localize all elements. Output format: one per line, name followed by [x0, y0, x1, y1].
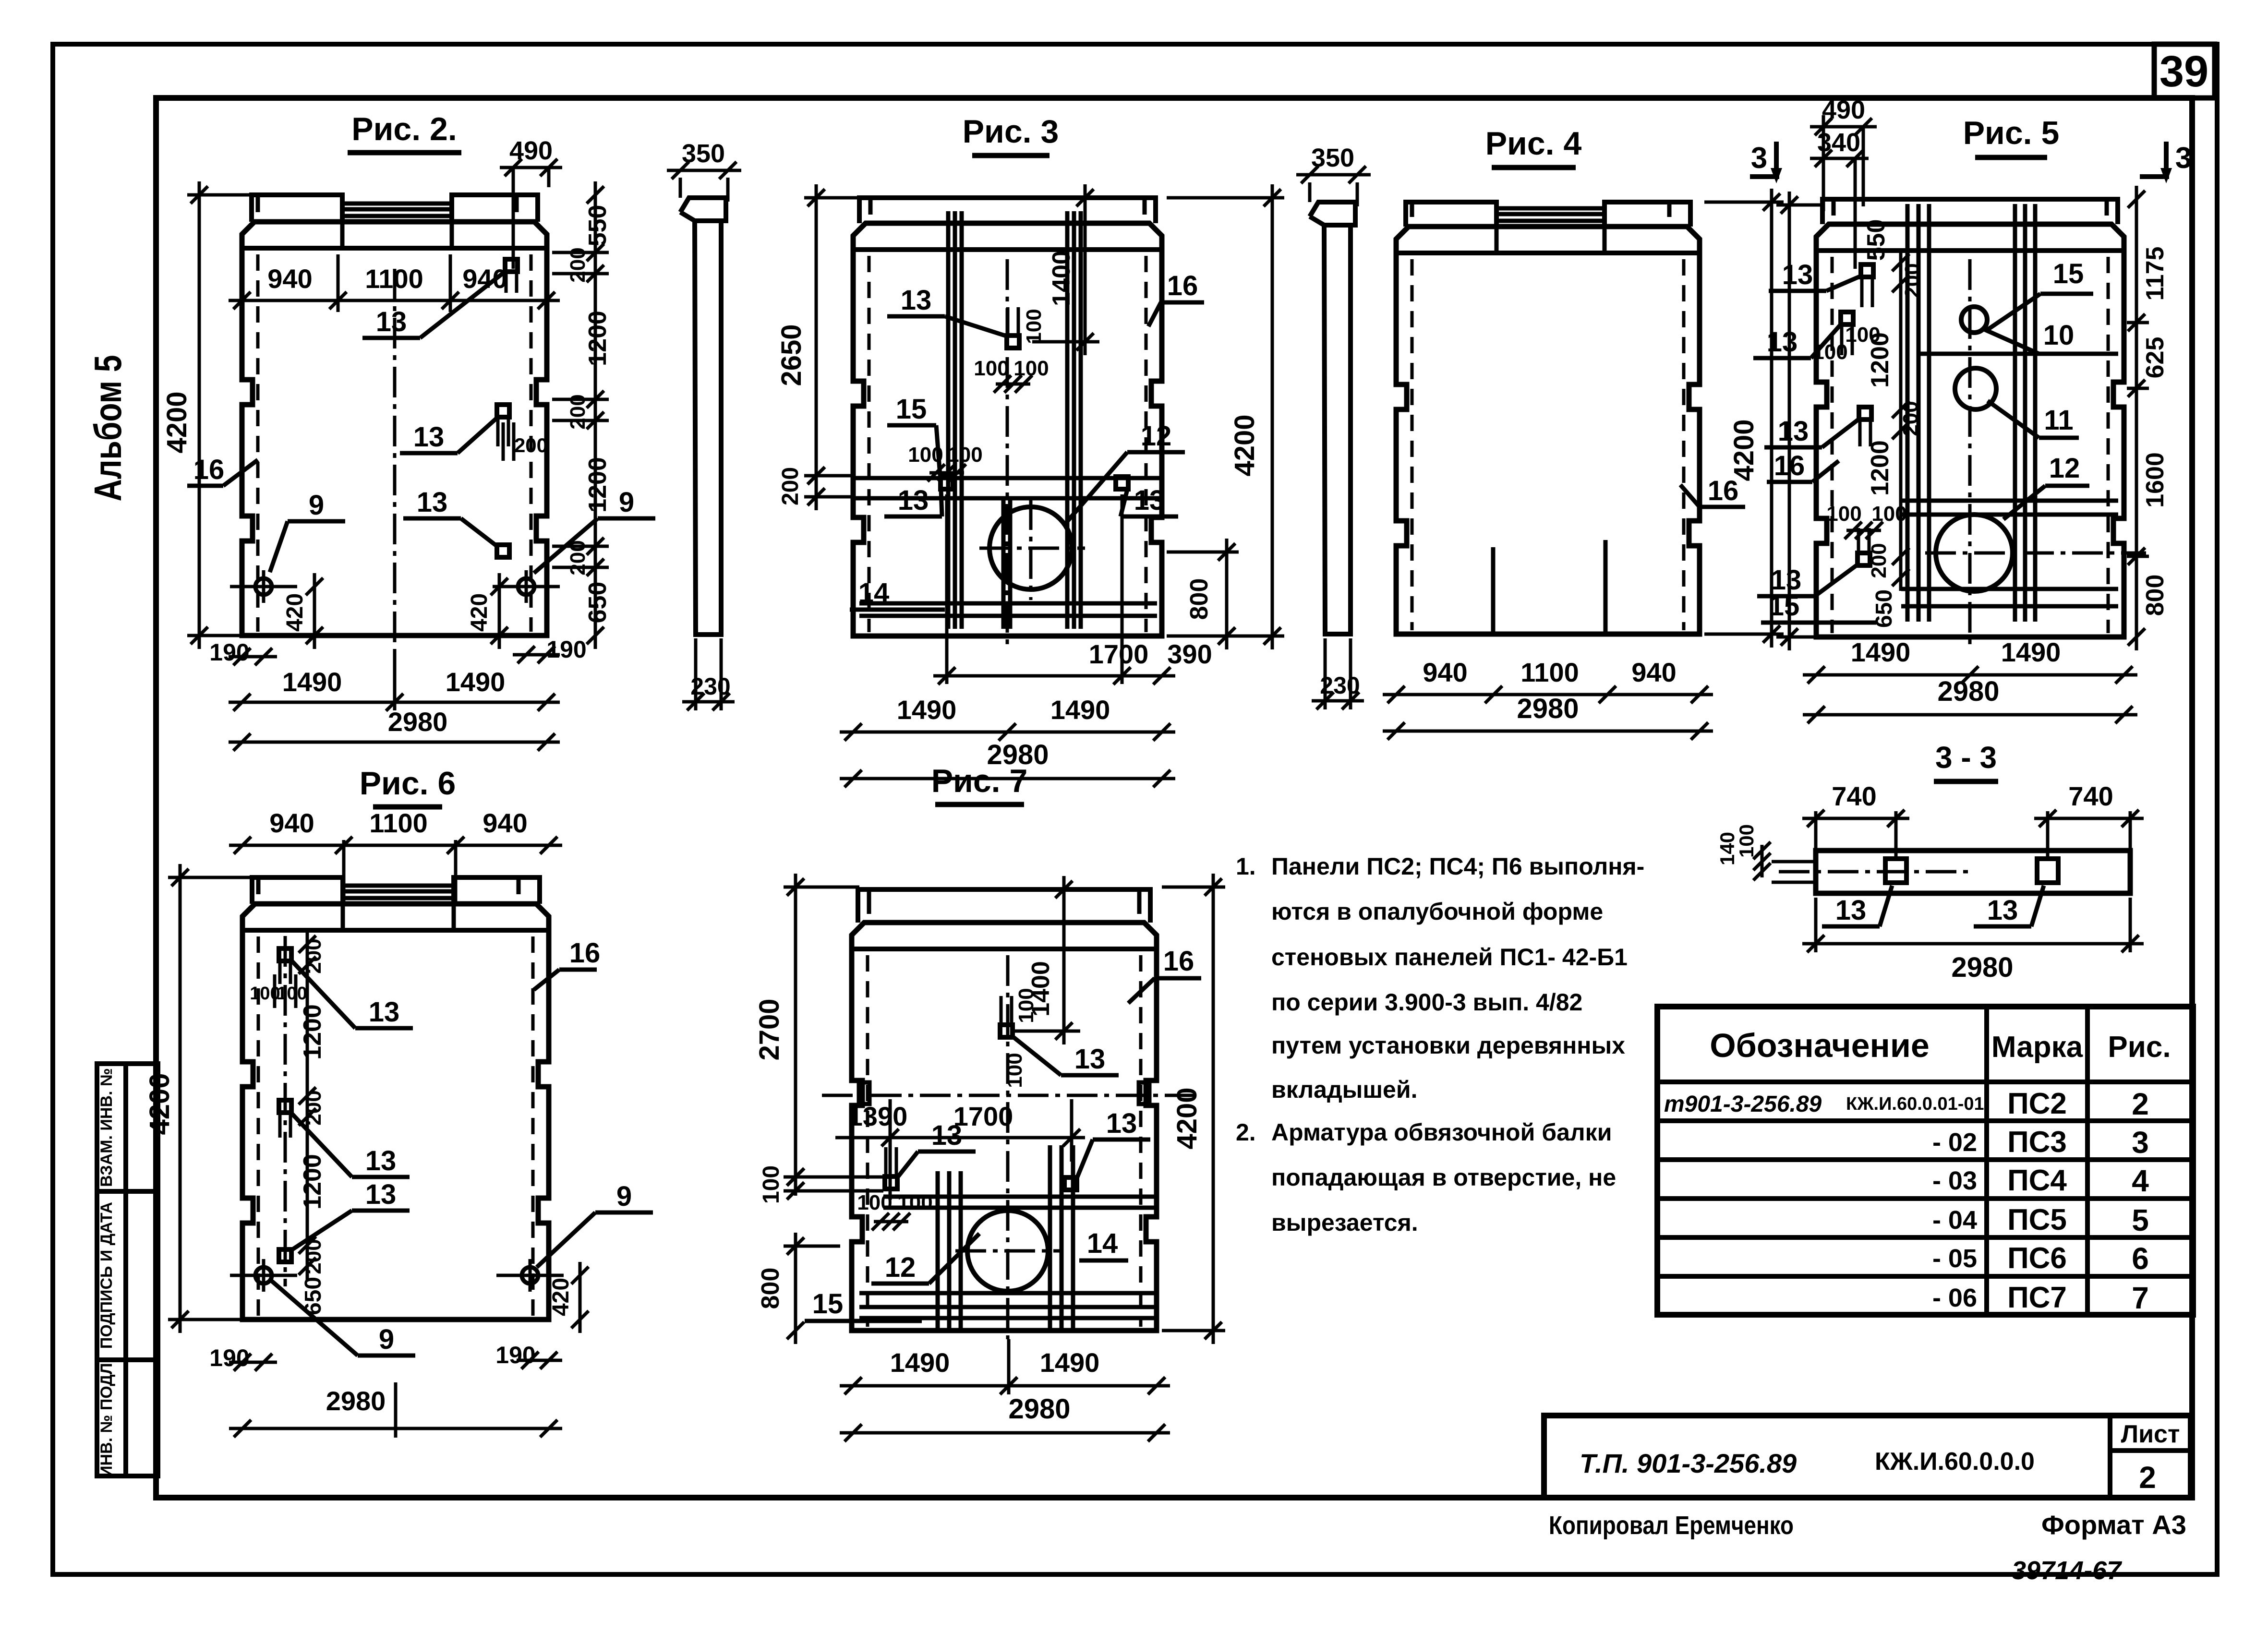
section 3-3 dim 140 100 left	[1716, 824, 1771, 880]
fig4 top band line	[1396, 251, 1700, 255]
svg-text:100: 100	[1022, 309, 1046, 344]
fig7 label 12 leader	[871, 1234, 979, 1284]
fig2 dim 1490 1490	[229, 653, 560, 711]
fig5 anchor 13 a4	[1858, 528, 1870, 565]
svg-text:13: 13	[1106, 1108, 1137, 1139]
fig7 dim 100 100 top	[1003, 988, 1038, 1088]
notes paragraph 1	[1236, 853, 1644, 1103]
svg-text:2980: 2980	[1937, 676, 1999, 707]
fig2 dim 940 1100 940	[229, 254, 560, 312]
fig5 dim 1490 1490	[1803, 637, 2137, 684]
svg-text:13: 13	[413, 421, 445, 453]
table row PS6	[1657, 1237, 2193, 1276]
fig3 dim 800 right	[1167, 539, 1239, 649]
fig5 beam line upper	[1919, 352, 2118, 356]
attribute box inv no podl	[97, 1358, 158, 1477]
fig3 dim 100 100 mid anchor	[908, 443, 982, 481]
fig3 label 14 leader	[850, 577, 945, 610]
svg-text:200: 200	[566, 540, 590, 575]
svg-text:100: 100	[277, 984, 307, 1004]
fig2 formwork dashed lines	[258, 254, 531, 632]
fig3 dim 2980	[840, 739, 1175, 787]
svg-text:625: 625	[2141, 337, 2169, 379]
fig3 dim 100 100 top anchor	[974, 309, 1049, 393]
footer copied by	[1549, 1511, 1794, 1540]
svg-text:13: 13	[1778, 416, 1809, 447]
fig2 label 9 right leader	[534, 487, 655, 573]
svg-text:13: 13	[365, 1145, 397, 1176]
svg-text:200: 200	[1899, 401, 1922, 436]
fig5 dim 340 top	[1810, 115, 1869, 269]
svg-text:5: 5	[2132, 1203, 2149, 1237]
svg-text:200: 200	[1867, 543, 1891, 578]
fig6 anchor axis line	[284, 936, 287, 1286]
svg-text:1490: 1490	[890, 1347, 950, 1378]
svg-text:1700: 1700	[953, 1101, 1013, 1131]
fig5 anchor 13 a3	[1859, 407, 1871, 446]
svg-text:14: 14	[858, 577, 890, 609]
fig5 label 13 a1 leader	[1769, 259, 1861, 291]
svg-text:940: 940	[1631, 657, 1676, 687]
fig3 center axis line	[1006, 259, 1009, 646]
fig4 profile view	[1310, 202, 1355, 634]
fig5 left chain dims	[1862, 219, 1924, 628]
fig3 dim 2650 left	[776, 184, 859, 489]
fig2 label 13 bottom leader	[403, 487, 498, 547]
svg-text:940: 940	[1423, 657, 1467, 687]
fig7 beam lines above hole	[883, 1197, 1157, 1208]
fig7 dim 4200 right	[1162, 874, 1225, 1344]
fig5 hole circle 11	[1955, 368, 1996, 409]
fig3 dim 200 left	[778, 462, 855, 510]
svg-text:940: 940	[269, 808, 314, 838]
fig6 label 13 low leader	[291, 1179, 410, 1250]
fig7 label 13 top leader	[1013, 1037, 1119, 1075]
svg-text:Обозначение: Обозначение	[1710, 1027, 1930, 1064]
svg-text:Рис. 7: Рис. 7	[931, 763, 1028, 799]
section 3-3 dim 740 right	[2034, 781, 2144, 859]
svg-text:650: 650	[584, 582, 612, 624]
svg-text:1200: 1200	[299, 1004, 326, 1060]
svg-text:9: 9	[616, 1181, 632, 1212]
fig6 anchor 13 middle	[279, 1100, 291, 1138]
svg-text:вкладышей.: вкладышей.	[1271, 1076, 1418, 1103]
fig7 label 13 left leader	[898, 1120, 976, 1177]
svg-text:190: 190	[209, 1344, 249, 1371]
svg-text:350: 350	[682, 139, 725, 168]
fig3 label 12 leader	[1065, 420, 1185, 524]
svg-text:2980: 2980	[326, 1386, 386, 1416]
svg-text:Рис. 5: Рис. 5	[1963, 115, 2060, 151]
fig5 label 13 a2 leader	[1753, 324, 1841, 358]
svg-text:11: 11	[2044, 405, 2073, 436]
fig7 anchor 13 top	[1000, 996, 1013, 1037]
fig6 anchor 13 top	[279, 948, 291, 984]
svg-text:13: 13	[365, 1179, 397, 1210]
svg-text:15: 15	[1769, 590, 1800, 622]
fig7 rebar group left	[938, 1171, 961, 1330]
fig6 formwork dashed lines	[258, 936, 533, 1316]
svg-text:2: 2	[2139, 1460, 2156, 1495]
svg-text:1200: 1200	[584, 457, 612, 513]
fig3 profile view	[680, 198, 726, 635]
fig7 center axis line	[1006, 955, 1010, 1339]
fig3 rebar group left	[948, 211, 962, 629]
svg-text:2.: 2.	[1236, 1119, 1256, 1146]
fig3 label 13 top leader	[887, 285, 1006, 336]
attribute box vzam inv	[97, 1064, 158, 1191]
svg-text:Панели ПС2; ПС4; П6 выполня-: Панели ПС2; ПС4; П6 выполня-	[1271, 853, 1644, 880]
fig7 label 13 right leader	[1077, 1108, 1150, 1177]
title block document code	[1875, 1448, 2035, 1476]
fig6 dim 420 right	[548, 1262, 589, 1333]
svg-text:т901-3-256.89: т901-3-256.89	[1664, 1092, 1822, 1117]
fig2 title	[348, 111, 461, 153]
fig5 section mark 3 right	[2140, 142, 2192, 183]
svg-text:650: 650	[1871, 589, 1897, 628]
svg-text:16: 16	[569, 937, 601, 969]
fig4 label 16 leader	[1680, 475, 1745, 507]
fig6 top tabs	[252, 877, 540, 930]
svg-text:13: 13	[1835, 895, 1867, 926]
fig5 hole circle 10	[1961, 307, 1987, 333]
fig5 center axis line	[1968, 259, 1972, 644]
svg-text:- 04: - 04	[1932, 1206, 1977, 1235]
svg-text:ИНВ. № ПОДЛ.: ИНВ. № ПОДЛ.	[97, 1358, 116, 1477]
svg-text:420: 420	[467, 593, 492, 632]
svg-text:Копировал Еремченко: Копировал Еремченко	[1549, 1511, 1794, 1540]
fig6 lifting loop right	[496, 1259, 564, 1292]
fig3 dim 4200 right	[1167, 184, 1284, 649]
svg-text:12: 12	[885, 1252, 916, 1283]
svg-text:200: 200	[1901, 263, 1924, 298]
notes paragraph 2	[1236, 1119, 1616, 1236]
svg-text:2650: 2650	[776, 324, 807, 386]
fig3 dim 1490 1490	[840, 695, 1175, 741]
fig2 lifting loop left	[230, 570, 297, 603]
fig2 dim 4200 left	[161, 181, 250, 649]
fig7 label 15 leader	[805, 1288, 922, 1321]
svg-text:13: 13	[898, 485, 929, 516]
table row PS2	[1664, 1087, 2149, 1121]
fig5 label 12 leader	[2003, 453, 2089, 519]
footer format	[2041, 1510, 2186, 1540]
svg-text:Альбом 5: Альбом 5	[86, 355, 129, 502]
svg-text:9: 9	[619, 487, 634, 518]
fig3 beam lines bottom	[859, 603, 1157, 616]
fig4 dim 2980	[1383, 693, 1713, 740]
svg-text:940: 940	[483, 808, 527, 838]
fig5 label 13 a3 leader	[1764, 416, 1859, 447]
fig5 beam lines middle	[1901, 501, 2118, 515]
fig2 panel PS2 outline	[242, 222, 547, 636]
svg-text:14: 14	[1087, 1228, 1118, 1259]
svg-text:7: 7	[2132, 1281, 2149, 1315]
fig5 anchor 13 a1	[1861, 264, 1873, 307]
svg-text:100: 100	[897, 1191, 932, 1214]
svg-text:1490: 1490	[897, 695, 957, 725]
svg-text:ПС2: ПС2	[2007, 1087, 2067, 1120]
fig6 label 13 mid leader	[291, 1113, 410, 1177]
svg-text:1490: 1490	[282, 667, 342, 697]
fig3 profile dim 230	[682, 638, 735, 710]
table row PS3	[1657, 1121, 2193, 1160]
title block sheet label	[2121, 1420, 2180, 1448]
svg-text:Рис. 6: Рис. 6	[360, 765, 456, 802]
fig2 dim 2980	[229, 707, 560, 751]
fig2 top band line	[242, 246, 547, 251]
drawing frame	[156, 98, 2192, 1498]
svg-text:3: 3	[1751, 142, 1767, 175]
svg-text:550: 550	[584, 205, 612, 247]
svg-text:490: 490	[1822, 96, 1865, 124]
svg-text:13: 13	[376, 306, 407, 337]
svg-text:200: 200	[566, 394, 590, 429]
fig7 notch squares mid	[859, 1082, 1149, 1104]
svg-text:100: 100	[1014, 988, 1038, 1023]
svg-text:ПС7: ПС7	[2007, 1281, 2067, 1314]
svg-text:КЖ.И.60.0.0.0: КЖ.И.60.0.0.0	[1875, 1448, 2035, 1476]
svg-text:2980: 2980	[1008, 1393, 1070, 1425]
svg-text:Лист: Лист	[2121, 1420, 2180, 1448]
svg-text:740: 740	[2068, 781, 2113, 811]
svg-text:200: 200	[566, 247, 590, 282]
fig5 hole circle 12	[1936, 515, 2013, 591]
fig4 section mark 3 top	[1750, 142, 1782, 183]
fig4 profile dim 230	[1312, 638, 1364, 709]
svg-text:1490: 1490	[1050, 695, 1110, 725]
svg-text:2980: 2980	[388, 707, 448, 737]
fig5 top strip	[1822, 199, 2118, 224]
fig3 formwork dashed lines	[869, 256, 1146, 632]
fig5 dim 100 100 a4	[1826, 502, 1906, 539]
svg-text:190: 190	[209, 639, 249, 666]
section 3-3 anchor left	[1885, 859, 1906, 883]
footer handwritten number	[2012, 1556, 2123, 1585]
fig3 top band line	[853, 247, 1162, 252]
fig3 hole circle 12	[979, 499, 1085, 600]
fig5 rebar group left	[1907, 204, 1929, 622]
title block frame	[1544, 1416, 2191, 1498]
svg-text:15: 15	[812, 1288, 844, 1320]
fig7 dim 800 left	[757, 1233, 840, 1344]
svg-text:100: 100	[1845, 323, 1880, 347]
fig6 panel PS6 outline	[242, 904, 549, 1320]
fig5 beam lines bottom	[1901, 589, 2118, 606]
svg-text:1490: 1490	[1851, 637, 1911, 667]
fig6 lifting loop left	[230, 1259, 297, 1292]
svg-text:10: 10	[2043, 320, 2075, 351]
svg-text:4: 4	[2132, 1164, 2149, 1198]
svg-text:100: 100	[1812, 340, 1847, 364]
section 3-3 bar	[1816, 851, 2130, 893]
fig5 label 16 leader	[1767, 450, 1839, 482]
svg-text:3: 3	[2132, 1125, 2149, 1160]
svg-text:350: 350	[1311, 144, 1354, 172]
svg-text:Рис.: Рис.	[2108, 1031, 2171, 1064]
fig5 right chain dims	[2127, 186, 2169, 650]
fig2 top tabs	[252, 195, 538, 248]
svg-text:39: 39	[2159, 47, 2208, 96]
svg-text:1600: 1600	[2141, 452, 2169, 508]
svg-text:1200: 1200	[299, 1154, 326, 1210]
fig5 anchor 13 a2	[1841, 312, 1853, 355]
svg-text:Т.П. 901-3-256.89: Т.П. 901-3-256.89	[1580, 1448, 1797, 1478]
fig3 anchor 13 right	[1116, 477, 1128, 489]
svg-text:100: 100	[1003, 1053, 1026, 1088]
section 3-3 rebar lines	[1772, 862, 1816, 882]
section 3-3 label 13 left leader	[1822, 886, 1892, 926]
fig2 dim 190 right	[513, 636, 587, 663]
fig7 hole circle 12	[955, 1200, 1061, 1301]
svg-text:16: 16	[193, 454, 225, 485]
fig7 formwork dashed lines	[868, 955, 1141, 1327]
svg-text:ПС4: ПС4	[2007, 1164, 2067, 1197]
svg-text:1100: 1100	[1520, 657, 1579, 687]
fig2 label 13 middle leader	[400, 417, 548, 461]
fig3 rebar pair middle	[1003, 499, 1010, 629]
svg-text:Рис. 3: Рис. 3	[963, 113, 1059, 150]
svg-text:2: 2	[2132, 1087, 2149, 1121]
svg-text:13: 13	[931, 1120, 963, 1151]
fig7 label 14 leader	[1079, 1228, 1128, 1260]
svg-text:13: 13	[1134, 485, 1165, 516]
title block designation	[1580, 1448, 1797, 1478]
fig2 anchor 13 middle	[497, 405, 509, 446]
svg-text:1100: 1100	[365, 264, 423, 294]
fig3 panel PS3 outline	[853, 223, 1162, 636]
svg-text:100: 100	[974, 357, 1009, 380]
svg-text:940: 940	[267, 264, 312, 294]
section 3-3 title	[1934, 740, 1998, 781]
fig7 panel PS7 outline	[852, 923, 1157, 1331]
section 3-3 axis line	[1779, 870, 1968, 874]
section 3-3 label 13 right leader	[1974, 886, 2044, 926]
svg-text:800: 800	[2141, 575, 2169, 616]
svg-text:Марка: Марка	[1991, 1031, 2083, 1064]
fig6 dim 190 right	[495, 1342, 562, 1369]
fig7 rebar group right	[1050, 1145, 1073, 1330]
svg-text:390: 390	[1167, 639, 1212, 669]
f4 inner verticals	[1493, 540, 1605, 633]
fig7 dim 1390 1700	[835, 1099, 1085, 1200]
svg-text:2980: 2980	[1951, 952, 2013, 983]
svg-text:1175: 1175	[2141, 247, 2169, 301]
svg-text:стеновых панелей ПС1- 42-Б1: стеновых панелей ПС1- 42-Б1	[1271, 944, 1628, 971]
fig5 label 11 leader	[1988, 401, 2079, 438]
svg-text:200: 200	[302, 1090, 326, 1125]
svg-text:- 02: - 02	[1932, 1128, 1977, 1157]
svg-text:по серии 3.900-3 вып. 4/82: по серии 3.900-3 вып. 4/82	[1271, 989, 1582, 1016]
fig5 hole axis line	[1925, 552, 2146, 555]
fig7 dim 2980	[840, 1393, 1170, 1441]
fig4 profile dim 350	[1296, 144, 1371, 206]
svg-text:190: 190	[546, 636, 586, 663]
svg-text:ПС3: ПС3	[2007, 1126, 2067, 1159]
svg-text:6: 6	[2132, 1241, 2149, 1276]
svg-text:200: 200	[514, 434, 548, 456]
svg-text:1200: 1200	[1866, 440, 1894, 496]
svg-text:3: 3	[2175, 142, 2192, 175]
svg-text:100: 100	[857, 1191, 892, 1214]
svg-text:Рис. 2.: Рис. 2.	[351, 111, 457, 147]
svg-text:4200: 4200	[1229, 414, 1260, 476]
fig5 dim 100 100 a2	[1812, 323, 1880, 364]
svg-text:ются в опалубочной форме: ются в опалубочной форме	[1271, 898, 1603, 925]
svg-text:- 03: - 03	[1932, 1166, 1977, 1195]
svg-text:420: 420	[548, 1278, 574, 1316]
svg-text:12: 12	[2049, 453, 2080, 484]
fig2 center axis line	[393, 269, 397, 655]
fig5 top band line	[1816, 248, 2124, 253]
fig3 title	[963, 113, 1059, 156]
svg-text:2700: 2700	[754, 998, 785, 1060]
svg-text:Арматура обвязочной балки: Арматура обвязочной балки	[1271, 1119, 1612, 1146]
fig5 dim 490 top	[1810, 96, 1877, 206]
fig3 label 13 mid-left leader	[884, 485, 942, 516]
fig5 dim 4200 left	[1776, 192, 1824, 650]
svg-text:39714-67: 39714-67	[2012, 1556, 2123, 1585]
fig2 dim 490 top	[500, 136, 562, 269]
fig7 dim 1490 1490	[840, 1339, 1170, 1394]
section 3-3 dim 2980	[1802, 898, 2144, 983]
svg-text:800: 800	[1185, 578, 1213, 620]
svg-text:1700: 1700	[1089, 639, 1149, 669]
fig6 dim 2980	[229, 1382, 562, 1438]
svg-text:1200: 1200	[584, 311, 612, 366]
svg-text:1400: 1400	[1048, 251, 1075, 306]
svg-text:- 06: - 06	[1932, 1284, 1977, 1312]
svg-text:вырезается.: вырезается.	[1271, 1209, 1418, 1236]
fig6 anchor 13 bottom	[279, 1249, 291, 1262]
svg-text:190: 190	[495, 1342, 535, 1368]
table frame	[1657, 1007, 2193, 1315]
fig2 anchor 13 bottom	[497, 545, 509, 557]
svg-text:ПС6: ПС6	[2007, 1242, 2067, 1275]
fig4 title	[1485, 125, 1582, 168]
fig5 title	[1963, 115, 2060, 157]
fig3 label 16 leader	[1148, 270, 1204, 326]
fig7 dim 2700 left	[754, 874, 859, 1190]
svg-text:9: 9	[309, 490, 324, 521]
svg-text:200: 200	[302, 938, 326, 973]
svg-text:15: 15	[896, 394, 927, 425]
svg-text:ВЗАМ. ИНВ. №: ВЗАМ. ИНВ. №	[97, 1068, 116, 1187]
fig3 label 13 mid-right leader	[1121, 485, 1178, 516]
fig2 anchor 13 top	[505, 259, 518, 293]
svg-text:13: 13	[417, 487, 448, 518]
fig4 panel PS4 outline	[1396, 227, 1700, 634]
svg-text:9: 9	[379, 1324, 394, 1355]
fig6 dim 4200 left	[144, 864, 252, 1333]
fig7 anchor 13 right	[1064, 1177, 1077, 1190]
fig6 dim 940 1100 940 top	[229, 808, 562, 902]
svg-text:ПС5: ПС5	[2007, 1203, 2067, 1236]
attribute box podpis i data	[97, 1191, 158, 1360]
fig2 label 9 left leader	[270, 490, 345, 572]
fig7 top band line	[852, 947, 1157, 951]
svg-text:попадающая в отверстие, не: попадающая в отверстие, не	[1271, 1164, 1616, 1191]
fig4 dim 940 1100 940	[1383, 657, 1713, 703]
svg-text:550: 550	[1862, 219, 1890, 261]
fig6 dim 650 left	[301, 1277, 326, 1315]
svg-text:- 05: - 05	[1932, 1244, 1977, 1273]
fig7 label 16 leader	[1128, 946, 1201, 1003]
svg-text:1390: 1390	[848, 1101, 908, 1131]
svg-text:КЖ.И.60.0.01-01: КЖ.И.60.0.01-01	[1846, 1094, 1984, 1114]
fig3 top strip	[859, 198, 1156, 223]
fig6 label 9 low leader	[271, 1281, 415, 1356]
